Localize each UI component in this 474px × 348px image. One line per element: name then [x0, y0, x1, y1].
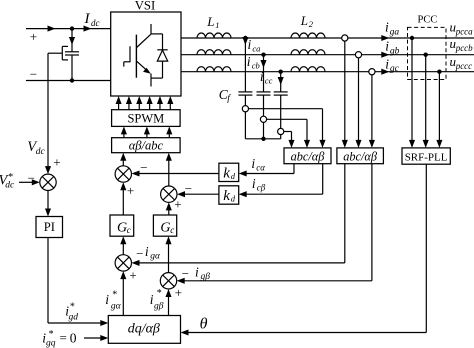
svg-text:+: + [174, 196, 181, 211]
svg-text:PI: PI [44, 220, 55, 234]
svg-text:+: + [53, 155, 60, 170]
svg-text:i: i [145, 244, 149, 259]
svg-text:i: i [385, 39, 389, 54]
svg-text:+: + [175, 285, 182, 300]
svg-text:cβ: cβ [257, 183, 266, 193]
svg-text:pcca: pcca [455, 27, 473, 37]
svg-text:−: − [182, 266, 189, 281]
svg-text:dc: dc [91, 18, 100, 28]
svg-text:c: c [127, 225, 131, 235]
svg-text:i: i [105, 292, 109, 307]
svg-text:−: − [185, 181, 192, 196]
svg-text:i: i [260, 69, 264, 84]
svg-text:gq: gq [46, 338, 56, 348]
svg-text:+: + [129, 267, 136, 282]
svg-text:gα: gα [111, 302, 122, 312]
svg-text:d: d [231, 171, 236, 181]
svg-text:SPWM: SPWM [127, 111, 164, 125]
svg-text:dc: dc [5, 181, 15, 191]
svg-text:+: + [127, 183, 134, 198]
svg-text:−: − [140, 160, 147, 175]
svg-text:*: * [112, 290, 117, 301]
svg-text:i: i [252, 176, 256, 191]
svg-text:I: I [84, 11, 91, 27]
svg-text:gα: gα [150, 251, 161, 261]
svg-text:dc: dc [36, 147, 46, 157]
svg-text:ga: ga [390, 27, 400, 37]
svg-text:gd: gd [69, 313, 79, 323]
svg-text:1: 1 [215, 20, 219, 30]
svg-text:i: i [195, 265, 199, 280]
svg-text:SRF-PLL: SRF-PLL [405, 151, 448, 163]
svg-text:*: * [70, 302, 75, 313]
svg-text:2: 2 [309, 19, 314, 29]
svg-text:gβ: gβ [154, 302, 164, 312]
svg-text:*: * [157, 288, 162, 299]
svg-text:k: k [223, 188, 230, 204]
svg-text:L: L [300, 13, 308, 28]
svg-text:d: d [231, 194, 236, 204]
svg-text:k: k [223, 165, 230, 181]
svg-text:−: − [28, 170, 35, 185]
svg-text:0: 0 [70, 331, 77, 346]
svg-text:ca: ca [252, 44, 260, 54]
svg-text:i: i [251, 156, 255, 171]
svg-text:pccb: pccb [455, 43, 473, 53]
svg-text:G: G [117, 220, 127, 235]
svg-text:i: i [385, 56, 389, 71]
svg-text:gc: gc [390, 64, 400, 74]
svg-text:i: i [247, 54, 251, 69]
svg-text:gβ: gβ [201, 272, 211, 282]
svg-text:i: i [385, 20, 389, 35]
svg-text:cc: cc [265, 75, 273, 85]
svg-text:−: − [30, 67, 37, 82]
svg-text:c: c [170, 225, 174, 235]
svg-text:abc/αβ: abc/αβ [343, 150, 378, 164]
svg-text:VSI: VSI [135, 0, 156, 13]
svg-text:−: − [136, 246, 143, 261]
svg-text:αβ/abc: αβ/abc [129, 139, 164, 153]
svg-text:PCC: PCC [418, 15, 438, 26]
svg-text:gb: gb [390, 46, 400, 56]
svg-text:dq/αβ: dq/αβ [128, 322, 160, 337]
svg-text:abc/αβ: abc/αβ [291, 150, 326, 164]
svg-text:cb: cb [252, 60, 260, 70]
svg-text:G: G [160, 220, 170, 235]
svg-text:=: = [60, 330, 67, 345]
svg-text:L: L [206, 14, 214, 29]
svg-text:pccc: pccc [455, 61, 472, 71]
svg-text:+: + [30, 29, 37, 44]
svg-text:i: i [248, 37, 252, 52]
svg-text:cα: cα [256, 163, 265, 173]
svg-text:θ: θ [200, 316, 208, 333]
